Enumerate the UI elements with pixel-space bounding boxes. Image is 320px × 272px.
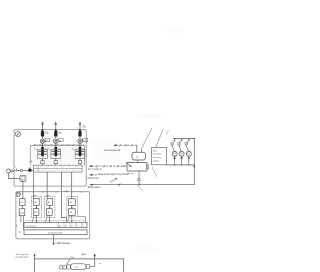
arrow tie 2 xyxy=(89,165,92,167)
busbar shield xyxy=(34,165,83,172)
svg-text:нч: нч xyxy=(44,148,46,150)
contact C1 xyxy=(20,169,22,171)
fuse F2 xyxy=(54,129,57,137)
callout line 1 xyxy=(141,128,152,148)
svg-text:ГУТ: ГУТ xyxy=(75,267,79,269)
svg-text:Б: Б xyxy=(19,231,21,234)
main bus bar xyxy=(24,222,87,227)
svg-text:Пр: Пр xyxy=(82,124,86,128)
svg-text:зв: зв xyxy=(80,191,82,193)
arrow from unit2 feed xyxy=(113,144,116,146)
arrow xyxy=(49,221,51,223)
signal bus arrow xyxy=(89,184,92,186)
node junction xyxy=(119,184,120,185)
unit II circled label xyxy=(16,192,20,196)
terminal box T1 xyxy=(41,161,44,164)
wire xyxy=(42,164,44,166)
svg-text:АГ: АГ xyxy=(35,201,38,204)
wire right connector xyxy=(78,217,86,223)
dash marks xyxy=(128,172,134,174)
wire xyxy=(55,143,57,147)
wire diag xyxy=(45,215,47,222)
wire xyxy=(71,205,73,208)
block AT2 xyxy=(47,209,53,216)
breaker Q2 xyxy=(178,139,182,152)
svg-text:вч: вч xyxy=(72,148,74,150)
svg-text:А: А xyxy=(16,224,18,227)
wire xyxy=(174,156,176,165)
svg-text:Со 2 агрегата: Со 2 агрегата xyxy=(104,148,121,152)
svg-text:зв: зв xyxy=(55,191,57,193)
switchbox K1 xyxy=(132,152,145,160)
wire xyxy=(90,265,95,267)
coupling box xyxy=(67,265,70,269)
node dot xyxy=(174,157,176,159)
contact box S1 xyxy=(45,138,50,142)
unit II enclosure box xyxy=(16,192,90,239)
node dot xyxy=(188,157,190,159)
svg-text:нч: нч xyxy=(82,148,84,150)
supply line xyxy=(35,258,124,260)
node arrow phase B xyxy=(55,121,57,124)
wire xyxy=(13,169,33,172)
svg-text:зв: зв xyxy=(42,191,44,193)
meter M2 xyxy=(11,170,13,172)
arrow xyxy=(36,221,38,223)
block AG2 xyxy=(47,198,53,205)
block AG1 xyxy=(34,198,40,205)
svg-text:абв: абв xyxy=(33,195,37,197)
wire diag xyxy=(32,215,34,222)
dashed group 2 xyxy=(45,196,55,217)
wire xyxy=(33,172,35,198)
pointer diag xyxy=(137,185,142,191)
node junction xyxy=(174,164,175,165)
svg-text:От 1-го(2-го): От 1-го(2-го) xyxy=(88,168,102,171)
wire xyxy=(137,160,139,163)
transformer bay box xyxy=(30,145,84,165)
node junction xyxy=(18,170,19,171)
dashed group 1 xyxy=(31,196,41,217)
breaker Q1 xyxy=(171,139,175,152)
lower bus xyxy=(167,164,195,166)
collector line xyxy=(26,220,84,222)
wire xyxy=(55,164,57,166)
machine body xyxy=(71,264,86,270)
transformer T1 core xyxy=(41,147,44,157)
arrow xyxy=(49,207,51,209)
svg-text:вч: вч xyxy=(48,148,50,150)
transformer T1 winding taps xyxy=(38,151,46,154)
svg-text:АГ: АГ xyxy=(70,201,73,204)
svg-text:зв: зв xyxy=(46,140,48,142)
svg-text:яжения: яжения xyxy=(153,161,159,163)
scan wash xyxy=(30,145,85,172)
contact box S2 xyxy=(59,138,64,142)
wire diag xyxy=(68,215,70,222)
wire xyxy=(42,136,44,139)
actuator arrow xyxy=(126,162,131,167)
block BP xyxy=(20,199,25,206)
transformer T2 winding taps xyxy=(52,151,60,154)
wire xyxy=(49,205,51,208)
wire riser xyxy=(94,255,96,267)
switch S2 xyxy=(54,139,59,144)
svg-text:ат: ат xyxy=(99,263,101,265)
slash mark xyxy=(138,183,140,186)
node arrow up 2 xyxy=(94,253,96,256)
svg-text:Г: Г xyxy=(77,225,79,227)
unit I enclosure box xyxy=(14,130,86,187)
wire xyxy=(55,123,57,129)
dashed tie line 1 xyxy=(116,144,137,146)
contact K2 xyxy=(138,178,141,181)
svg-text:зв: зв xyxy=(136,157,139,159)
wire xyxy=(35,205,37,208)
wire xyxy=(42,123,44,129)
fuse F3 xyxy=(78,129,81,137)
node junction xyxy=(188,164,189,165)
svg-text:зв: зв xyxy=(59,140,61,142)
svg-text:Пр: Пр xyxy=(45,131,49,135)
wire xyxy=(55,136,57,139)
terminal element xyxy=(147,165,149,169)
svg-text:вч: вч xyxy=(34,148,36,150)
svg-text:АТ: АТ xyxy=(70,211,73,214)
motor D3 xyxy=(186,151,191,156)
slash mark xyxy=(118,183,120,186)
svg-text:абв: абв xyxy=(46,195,50,197)
contact tick xyxy=(16,169,18,171)
wire xyxy=(79,164,81,166)
svg-text:АГ: АГ xyxy=(48,201,51,204)
motor pair xyxy=(59,266,66,270)
wire xyxy=(181,156,183,165)
node arrow phase A xyxy=(41,121,43,124)
transformer T2 case xyxy=(51,149,61,158)
svg-text:Ввод серии: Ввод серии xyxy=(88,186,101,189)
switch S3 xyxy=(78,139,83,144)
svg-text:к ДВ приемн.: к ДВ приемн. xyxy=(56,242,71,245)
svg-text:выхода судна: выхода судна xyxy=(16,256,30,258)
svg-text:БП: БП xyxy=(21,202,24,204)
wire xyxy=(79,136,81,139)
callout line 2 xyxy=(156,129,164,147)
wire xyxy=(35,215,37,222)
check arrow xyxy=(110,178,117,182)
node junction xyxy=(194,138,195,139)
svg-text:включение круглосуточной: включение круглосуточной xyxy=(98,173,130,176)
top bus xyxy=(173,138,194,140)
wire xyxy=(79,123,81,129)
right feeder xyxy=(193,139,195,185)
wire xyxy=(136,145,138,152)
wire corner down xyxy=(123,259,125,272)
tie slashes xyxy=(119,144,133,146)
svg-text:АТ: АТ xyxy=(48,211,51,214)
wire xyxy=(34,255,36,272)
relay text xyxy=(153,150,162,162)
svg-text:т: т xyxy=(15,166,17,169)
svg-text:Б: Б xyxy=(65,225,67,227)
scan smudges xyxy=(133,26,185,252)
tie slashes 2 xyxy=(96,165,124,167)
terminal box T3 xyxy=(78,161,81,164)
svg-text:резервная ГВ: резервная ГВ xyxy=(48,233,62,235)
dashed tie line 2 xyxy=(92,165,127,167)
transformer T3 core xyxy=(79,147,82,157)
node dots bay xyxy=(42,145,81,146)
switch S1 xyxy=(40,139,45,144)
wire xyxy=(53,235,55,244)
wire xyxy=(71,215,73,222)
arrow note xyxy=(89,174,92,176)
wire xyxy=(62,172,67,222)
arrow xyxy=(71,221,73,223)
svg-text:Реле: Реле xyxy=(153,150,157,152)
contact box S3 xyxy=(83,138,88,142)
end element xyxy=(86,265,89,269)
terminal box T2 xyxy=(54,161,57,164)
wire xyxy=(55,158,57,160)
svg-text:ного напр: ного напр xyxy=(153,157,162,159)
callout line 3 xyxy=(152,167,157,176)
sensor B1 xyxy=(28,167,31,172)
transformer T3 winding taps xyxy=(76,151,84,154)
svg-text:лг: лг xyxy=(21,179,23,181)
unit I circled label xyxy=(15,131,20,136)
svg-text:А: А xyxy=(59,224,61,227)
svg-text:В: В xyxy=(71,225,73,227)
wire xyxy=(22,181,24,198)
wire drop xyxy=(67,259,70,265)
wire xyxy=(79,158,81,160)
transformer T2 core xyxy=(55,147,58,157)
wire xyxy=(8,173,20,179)
wire xyxy=(138,171,140,185)
breaker Q3 xyxy=(185,139,189,152)
wire xyxy=(20,216,22,223)
svg-text:основная: основная xyxy=(27,225,37,227)
relay text box xyxy=(152,147,167,164)
note line xyxy=(92,174,97,176)
svg-text:зв: зв xyxy=(83,140,85,142)
wire xyxy=(141,149,143,152)
svg-text:ДВ А: ДВ А xyxy=(81,253,87,256)
transformer T1 case xyxy=(38,149,48,158)
wire xyxy=(42,158,44,160)
busbar hatch xyxy=(35,166,81,172)
svg-text:Пр: Пр xyxy=(58,131,62,135)
node junction xyxy=(181,164,182,165)
meter M1 xyxy=(6,169,10,173)
motor D2 xyxy=(179,151,184,156)
wire xyxy=(71,172,73,199)
callout curl xyxy=(167,131,169,135)
arrow xyxy=(36,207,38,209)
dashed group 3 xyxy=(67,197,78,217)
motor D1 xyxy=(172,151,177,156)
signal bus xyxy=(91,184,194,186)
wire xyxy=(23,216,25,230)
arrow out xyxy=(53,243,55,245)
regulator box K3 xyxy=(127,163,147,172)
bus ticks xyxy=(58,222,82,227)
block AG3 xyxy=(68,199,75,206)
reserve bus bar xyxy=(24,230,87,235)
block BOD xyxy=(19,209,25,216)
node arrow phase C xyxy=(79,121,81,124)
wire xyxy=(46,172,48,198)
node arrow up 1 xyxy=(34,253,36,256)
svg-text:БОД: БОД xyxy=(20,212,25,214)
relay box DF xyxy=(20,176,26,182)
transformer T3 case xyxy=(75,149,85,158)
block AT3 xyxy=(68,209,75,216)
svg-text:нч: нч xyxy=(58,148,60,150)
wire xyxy=(79,143,81,147)
wire xyxy=(21,206,23,209)
fuse F1 xyxy=(41,129,44,137)
svg-text:минималь: минималь xyxy=(153,154,162,156)
feeder arrow xyxy=(193,166,195,169)
mechanical linkage xyxy=(34,143,84,145)
label start note xyxy=(16,254,30,259)
wire xyxy=(42,143,44,147)
svg-text:Работа в 1: Работа в 1 xyxy=(88,177,100,180)
arrow xyxy=(71,207,73,209)
block AT1 xyxy=(33,209,39,216)
wire xyxy=(49,215,51,222)
wire xyxy=(188,156,190,165)
svg-text:АТ: АТ xyxy=(34,211,37,214)
node dot xyxy=(181,157,183,159)
